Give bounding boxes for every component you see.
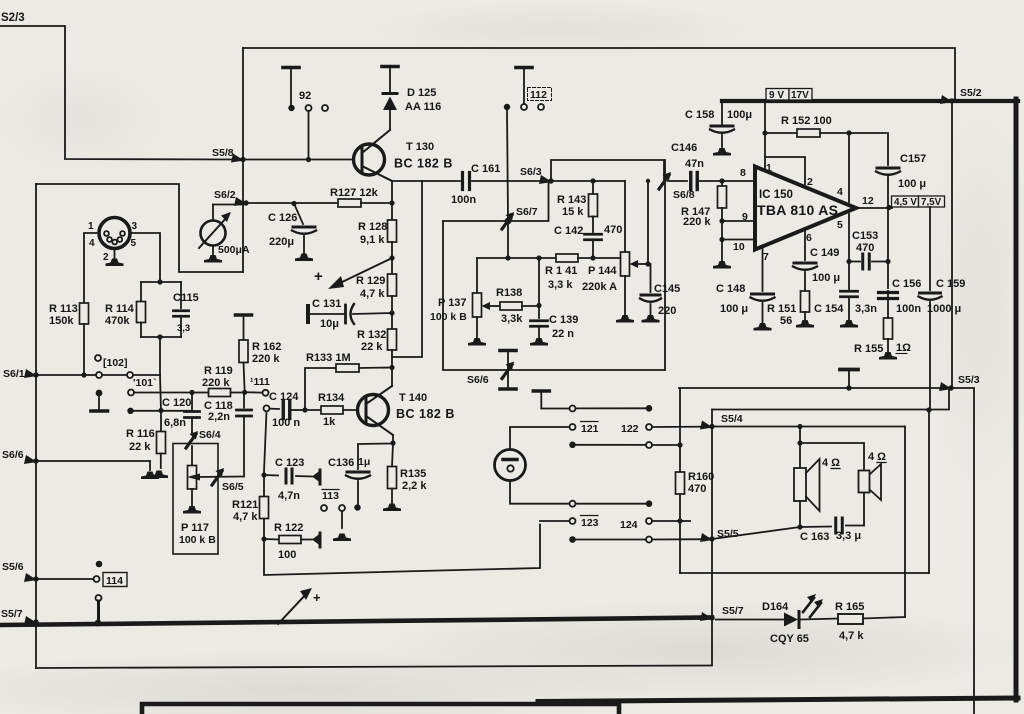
contact 102 <box>95 355 128 369</box>
capacitor C124 100n <box>269 391 300 429</box>
svg-text:S5/8: S5/8 <box>212 147 234 159</box>
svg-text:C 120: C 120 <box>162 397 191 409</box>
capacitor C126 220u <box>268 201 316 261</box>
terminal 92 T-bar <box>283 68 299 105</box>
wire S6/3 bypass top <box>551 160 664 181</box>
svg-text:4: 4 <box>837 186 843 198</box>
pin label 6 <box>806 232 812 244</box>
wire S6/2 to R127 <box>246 202 338 204</box>
speaker LS2 4ohm <box>859 451 887 500</box>
capacitor C157 100u <box>876 153 926 206</box>
svg-text:S6/4: S6/4 <box>199 429 221 441</box>
wire left edge bus <box>35 184 37 668</box>
diode D125 AA116 <box>383 87 441 130</box>
wire S5/3 to right drop <box>951 388 974 714</box>
svg-text:4,7 k: 4,7 k <box>233 511 258 523</box>
wire S5/6 row <box>36 578 93 580</box>
resistor R119 220k <box>202 365 233 397</box>
wire DIN pin2 ground <box>106 249 124 267</box>
wire row1 <box>541 408 569 410</box>
terminal plug below 101 <box>91 390 108 411</box>
svg-text:7,5V: 7,5V <box>921 197 942 208</box>
pin label 4 <box>837 186 843 198</box>
svg-text:R 128: R 128 <box>358 221 387 233</box>
svg-text:12: 12 <box>862 195 874 207</box>
capacitor C146 47n <box>671 142 704 190</box>
label 112 <box>528 88 552 102</box>
wire stage link to tone section <box>392 181 422 357</box>
wire C159 to box <box>926 407 931 573</box>
capacitor C115 3.3 <box>173 282 199 337</box>
resistor R141 3.3k <box>545 254 621 291</box>
svg-text:2,2n: 2,2n <box>208 411 230 423</box>
wire pin12 down bus <box>885 208 890 288</box>
svg-text:BC 182 B: BC 182 B <box>396 407 455 421</box>
svg-text:R 1 41: R 1 41 <box>545 265 577 277</box>
wire S6/4 to P117 <box>191 446 193 466</box>
svg-text:S5/6: S5/6 <box>2 561 24 573</box>
resistor R151 56 <box>767 291 814 328</box>
rail S5/7 thick <box>0 618 712 626</box>
contact row4 left <box>570 501 576 507</box>
svg-text:+: + <box>314 268 323 285</box>
svg-text:220μ: 220μ <box>269 236 294 248</box>
contact row B left <box>127 408 133 414</box>
svg-text:5: 5 <box>837 219 843 231</box>
svg-text:C 139: C 139 <box>549 314 578 326</box>
box around P117 <box>173 444 218 555</box>
wire speaker right drop <box>904 427 906 617</box>
wire S5/5 to speakers <box>712 527 800 539</box>
meter 500uA <box>199 205 250 263</box>
svg-text:10: 10 <box>733 241 745 253</box>
wire row B <box>133 408 192 413</box>
svg-text:2: 2 <box>807 176 813 188</box>
svg-text:R138: R138 <box>496 287 522 299</box>
svg-text:1: 1 <box>766 162 772 174</box>
wire S5/2 to S5/3 link <box>951 103 953 386</box>
contact row3 right <box>646 442 652 448</box>
svg-text:100n: 100n <box>451 194 476 206</box>
wire S6/3 to R143 and P144 <box>554 180 625 182</box>
potentiometer P137 100k B <box>430 293 482 323</box>
pin label 5 <box>837 219 843 231</box>
svg-text:22 k: 22 k <box>129 441 151 453</box>
svg-text:100 k B: 100 k B <box>179 534 216 546</box>
node S5/5 <box>700 528 739 542</box>
svg-text:R134: R134 <box>318 392 345 404</box>
wire S6/6 stub to ground <box>36 461 159 479</box>
wire row A contacts <box>87 374 96 376</box>
svg-text:3,3n: 3,3n <box>855 303 877 315</box>
border bottom thick <box>538 698 1018 702</box>
contact 112 a <box>504 104 510 110</box>
node S5/8 <box>212 147 246 163</box>
wire R141 row <box>477 255 556 260</box>
resistor R128 9.1k <box>358 220 397 246</box>
node S6/1 <box>3 368 39 380</box>
svg-text:P 137: P 137 <box>438 297 467 309</box>
resistor R152 100 <box>765 115 886 137</box>
svg-text:220 k: 220 k <box>683 216 711 228</box>
svg-text:470: 470 <box>688 483 706 495</box>
contact 92 c <box>322 105 328 111</box>
wire T140 emitter node <box>390 435 395 446</box>
svg-text:22 n: 22 n <box>552 328 574 340</box>
wire 124 to R160 bus <box>652 518 683 523</box>
svg-text:150k: 150k <box>49 315 74 327</box>
svg-text:113: 113 <box>322 490 339 502</box>
wire S5/3 bus <box>679 387 949 389</box>
wire speaker box top <box>712 390 949 410</box>
wire speaker box left <box>711 410 713 666</box>
pin label 12 <box>862 195 874 207</box>
svg-text:R 151: R 151 <box>767 303 796 315</box>
capacitor C139 22n <box>530 314 578 346</box>
svg-text:121: 121 <box>581 423 599 435</box>
wire R127 to emitter bus <box>361 200 395 205</box>
node S5/7 left <box>1 608 39 625</box>
wire row5 ext <box>680 520 690 522</box>
box next section <box>142 704 619 714</box>
terminal D125 T-bar <box>382 67 398 93</box>
svg-text:IC 150: IC 150 <box>759 189 793 201</box>
svg-text:R 165: R 165 <box>835 601 864 613</box>
svg-text:4 Ω: 4 Ω <box>868 451 886 463</box>
label 121 <box>581 422 599 436</box>
wire ladder bottom to row 123 <box>264 525 540 576</box>
svg-text:S5/7: S5/7 <box>1 608 23 620</box>
resistor R143 15k <box>557 178 598 218</box>
wire R119 to contact 111 <box>247 391 262 393</box>
svg-text:+: + <box>313 590 321 605</box>
svg-text:92: 92 <box>299 90 311 102</box>
wire P117 wiper to S6/5 <box>187 474 243 481</box>
svg-text:R 155: R 155 <box>854 343 883 355</box>
wire jack bottom to contact 123 <box>510 481 569 504</box>
svg-text:R 122: R 122 <box>274 522 303 534</box>
wire P144 wiper <box>630 260 651 268</box>
resistor R165 4.7k <box>835 601 905 642</box>
wire R132 to T140 collector <box>389 350 394 386</box>
border right thick <box>1014 99 1019 700</box>
pin label 8 <box>740 167 746 179</box>
op-amp IC150 TBA810AS <box>755 167 856 250</box>
resistor R135 2.2k <box>383 443 427 511</box>
contact 92 b <box>306 105 312 111</box>
wire C146 to pin8 <box>698 178 753 183</box>
contact 101 a <box>96 372 102 378</box>
svg-text:4 Ω: 4 Ω <box>822 457 840 469</box>
wire 122 to S5/4 <box>652 426 709 428</box>
contact row3 left <box>569 442 576 449</box>
capacitor C148 100u <box>716 248 775 331</box>
wire top horizontal bus <box>243 48 955 99</box>
label 124 <box>620 519 638 531</box>
wire 112 drop to S6/7 <box>507 110 508 218</box>
node S5/2 <box>940 87 982 104</box>
wire bottom thin bus <box>36 666 711 669</box>
svg-text:C 142: C 142 <box>554 225 583 237</box>
svg-text:6: 6 <box>806 232 812 244</box>
svg-text:C146: C146 <box>671 142 697 154</box>
resistor R129 4.7k <box>356 274 397 300</box>
label 113 row <box>322 490 339 503</box>
wire row1 link <box>576 407 646 409</box>
svg-text:R 132: R 132 <box>357 329 386 341</box>
svg-text:BC 182 B: BC 182 B <box>394 157 453 171</box>
svg-text:8: 8 <box>740 167 746 179</box>
svg-text:220 k: 220 k <box>202 377 230 389</box>
svg-text:'101ˋ: '101ˋ <box>133 377 157 389</box>
wire divider bottom bar <box>141 334 181 339</box>
svg-text:100 n: 100 n <box>272 417 300 429</box>
switch S6/4 <box>186 429 221 448</box>
node switch S6/8 <box>659 172 695 201</box>
contact 124 <box>646 518 652 524</box>
label box 9V 17V <box>766 89 812 102</box>
potentiometer P117 100k <box>179 466 216 547</box>
svg-text:100 μ: 100 μ <box>812 272 840 284</box>
wire pin9 <box>722 220 753 222</box>
svg-text:1k: 1k <box>323 416 336 428</box>
wire R147 to pins 9 10 <box>719 208 724 242</box>
wire rail to pin1 <box>762 101 767 170</box>
svg-text:C115: C115 <box>173 292 199 304</box>
node switch S6/7 <box>502 206 538 229</box>
resistor R138 3.3k <box>496 287 542 325</box>
svg-text:220 k: 220 k <box>252 353 280 365</box>
resistor R132 22k <box>357 329 397 353</box>
svg-text:R133 1M: R133 1M <box>306 352 351 364</box>
wire row A to divider <box>133 374 160 376</box>
svg-text:5: 5 <box>131 238 137 249</box>
svg-text:R121: R121 <box>232 499 258 511</box>
wire box A bottom <box>680 572 929 574</box>
wire speaker top feed <box>712 424 905 429</box>
label 122 <box>621 423 639 435</box>
svg-text:4: 4 <box>89 238 95 249</box>
plus mark and tap pointer at C126 <box>314 259 390 289</box>
svg-text:C 163: C 163 <box>800 531 829 543</box>
wire wiper bus up to S6/8 <box>646 179 650 264</box>
svg-text:470k: 470k <box>105 315 130 327</box>
svg-text:100 μ: 100 μ <box>720 303 748 315</box>
contact 114 top pair <box>94 561 103 582</box>
svg-text:S5/7: S5/7 <box>722 605 744 617</box>
node S5/3 <box>939 374 980 391</box>
svg-text:4,7n: 4,7n <box>278 490 300 502</box>
wire P117 ground <box>183 489 201 514</box>
svg-text:56: 56 <box>780 315 792 327</box>
svg-text:1000 μ: 1000 μ <box>927 303 961 315</box>
label 114 <box>103 573 127 588</box>
resistor R133 1M feedback <box>305 352 392 410</box>
svg-text:220: 220 <box>658 305 676 317</box>
svg-text:C 123: C 123 <box>275 457 304 469</box>
svg-text:R 162: R 162 <box>252 341 281 353</box>
wire row A mid <box>102 374 127 376</box>
svg-text:P 117: P 117 <box>181 522 209 534</box>
wire speaker2 feed <box>800 443 864 471</box>
svg-text:T 140: T 140 <box>399 392 427 404</box>
svg-text:S5/3: S5/3 <box>958 374 980 386</box>
wire DIN pin3 to divider <box>130 233 160 282</box>
wire R129 to R132 <box>389 296 394 329</box>
wire R138 node down to C139 <box>538 258 540 318</box>
svg-text:1Ω: 1Ω <box>896 342 911 354</box>
wire R113 to input row <box>81 324 86 378</box>
svg-text:10μ: 10μ <box>320 318 339 330</box>
capacitor C159 1000u <box>919 207 966 409</box>
wire emitter bus upper <box>391 181 393 220</box>
wire divider top bar <box>141 281 181 283</box>
capacitor C120 6.8n <box>162 393 200 434</box>
wire row4 <box>576 503 646 505</box>
svg-text:D164: D164 <box>762 601 789 613</box>
svg-text:R160: R160 <box>688 471 714 483</box>
contact 113 b <box>333 505 351 541</box>
contact C124 row <box>264 405 270 411</box>
svg-text:AA 116: AA 116 <box>405 101 441 113</box>
svg-text:100μ: 100μ <box>727 109 752 121</box>
svg-text:C 158: C 158 <box>685 109 714 121</box>
svg-text:2,2 k: 2,2 k <box>402 480 427 492</box>
wire tone loop left-bottom <box>443 160 665 370</box>
capacitor C153 470 <box>849 230 888 269</box>
wire P137 top feed <box>476 258 478 293</box>
node S2/3 label <box>1 12 25 24</box>
jack headphone <box>495 450 526 481</box>
svg-text:S2/3: S2/3 <box>1 12 25 24</box>
svg-text:C 149: C 149 <box>810 247 839 259</box>
wire P144 ground <box>616 276 634 323</box>
diode D164 CQY65 LED <box>716 594 838 645</box>
wire pin12 out <box>856 205 892 210</box>
svg-text:S6/3: S6/3 <box>520 166 542 178</box>
wire row C to R119 <box>134 390 195 395</box>
svg-text:S6/7: S6/7 <box>516 206 538 218</box>
svg-text:R135: R135 <box>400 468 426 480</box>
svg-text:C 131: C 131 <box>312 298 341 310</box>
wire R134 to T140 <box>343 409 358 411</box>
wire S2/3 input <box>0 26 240 160</box>
svg-text:C 154: C 154 <box>814 303 844 315</box>
wire 92 drop <box>306 111 311 162</box>
svg-text:C 124: C 124 <box>269 391 299 403</box>
svg-text:122: 122 <box>621 423 639 435</box>
connector DIN socket <box>88 218 138 264</box>
capacitor C142 470 <box>554 217 622 259</box>
pin label 2 <box>807 176 813 188</box>
wire R147 ground <box>713 240 731 269</box>
svg-text:S6/1: S6/1 <box>3 368 25 380</box>
wire main vertical bus x=243 <box>242 48 244 272</box>
svg-text:1μ: 1μ <box>358 456 370 468</box>
svg-text:S6/6: S6/6 <box>2 449 24 461</box>
wire C124 left <box>270 408 280 410</box>
svg-text:¹111: ¹111 <box>250 376 270 388</box>
contact 111 <box>250 376 270 396</box>
wire pin10 <box>722 239 753 241</box>
node S6/2 <box>214 189 249 206</box>
svg-text:100n: 100n <box>896 303 921 315</box>
wire R160 bus <box>679 388 681 573</box>
contact 101 b <box>127 372 133 378</box>
svg-text:100: 100 <box>278 549 296 561</box>
contact row1 left <box>570 406 576 412</box>
wire P137 wiper <box>482 302 501 310</box>
svg-text:9,1 k: 9,1 k <box>360 234 385 246</box>
svg-text:TBA 810 AS: TBA 810 AS <box>757 202 838 218</box>
svg-text:R127 12k: R127 12k <box>330 187 379 199</box>
svg-text:470: 470 <box>856 242 874 254</box>
contact row6 left <box>569 536 576 543</box>
contact 112 c <box>538 104 544 110</box>
wire speaker1 drop <box>797 427 802 469</box>
svg-text:123: 123 <box>581 517 599 529</box>
resistor R162 220k <box>236 315 282 392</box>
resistor R155 1ohm <box>854 318 911 360</box>
svg-text:P 144: P 144 <box>588 265 617 277</box>
svg-text:D 125: D 125 <box>407 87 436 99</box>
svg-text:17V: 17V <box>791 90 809 101</box>
svg-text:9 V: 9 V <box>769 90 784 101</box>
speaker LS1 4ohm <box>794 457 840 511</box>
svg-text:100 k B: 100 k B <box>430 311 467 323</box>
svg-text:S6/5: S6/5 <box>222 481 244 493</box>
svg-text:S6/2: S6/2 <box>214 189 236 201</box>
resistor R121 4.7k <box>232 497 269 524</box>
pin label 10 <box>733 241 745 253</box>
svg-text:2: 2 <box>103 252 109 263</box>
svg-text:R 114: R 114 <box>105 303 135 315</box>
capacitor C136 1u <box>328 444 391 511</box>
svg-text:3,3 k: 3,3 k <box>548 279 573 291</box>
wire row5 left <box>540 520 569 522</box>
svg-text:3,3 μ: 3,3 μ <box>836 530 861 542</box>
power rail 9V 17V <box>722 99 1018 103</box>
wire S6/8 to C146 <box>668 180 687 182</box>
wire C124 to base node <box>290 407 308 412</box>
svg-text:15 k: 15 k <box>562 206 584 218</box>
svg-text:470: 470 <box>604 224 622 236</box>
svg-text:R 143: R 143 <box>557 194 586 206</box>
wire S6/7 branch <box>443 181 549 221</box>
contact row C left <box>128 390 134 396</box>
capacitor C118 2.2n <box>204 392 252 476</box>
contact 92 a <box>288 105 294 111</box>
wire P144 top feed <box>624 181 626 252</box>
svg-text:3,3: 3,3 <box>177 323 190 334</box>
wire C161 to S6/3 <box>472 180 548 182</box>
svg-text:100 μ: 100 μ <box>898 178 926 190</box>
capacitor C154 3.3n <box>814 262 877 328</box>
svg-text:C157: C157 <box>900 153 926 165</box>
label 101 <box>133 377 157 389</box>
svg-text:C136: C136 <box>328 457 354 469</box>
transistor T130 <box>354 130 453 181</box>
svg-text:47n: 47n <box>685 158 704 170</box>
svg-text:3: 3 <box>132 221 138 232</box>
svg-text:500μA: 500μA <box>218 244 250 256</box>
svg-text:T 130: T 130 <box>406 141 434 153</box>
svg-text:3,3k: 3,3k <box>501 313 523 325</box>
wire base T130 <box>243 159 354 161</box>
contact 114 bottom <box>95 595 102 626</box>
svg-text:R 129: R 129 <box>356 275 385 287</box>
svg-text:C 159: C 159 <box>936 278 965 290</box>
